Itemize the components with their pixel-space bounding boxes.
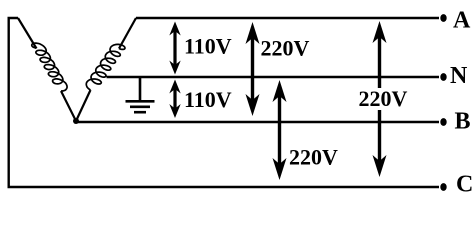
svg-text:220V: 220V: [359, 86, 408, 111]
svg-text:A: A: [453, 7, 471, 33]
svg-text:N: N: [450, 63, 468, 89]
svg-text:220V: 220V: [289, 145, 338, 170]
svg-text:110V: 110V: [184, 34, 232, 59]
svg-text:B: B: [455, 109, 471, 135]
svg-text:220V: 220V: [261, 36, 310, 61]
svg-text:110V: 110V: [184, 87, 232, 112]
svg-text:C: C: [456, 172, 473, 198]
